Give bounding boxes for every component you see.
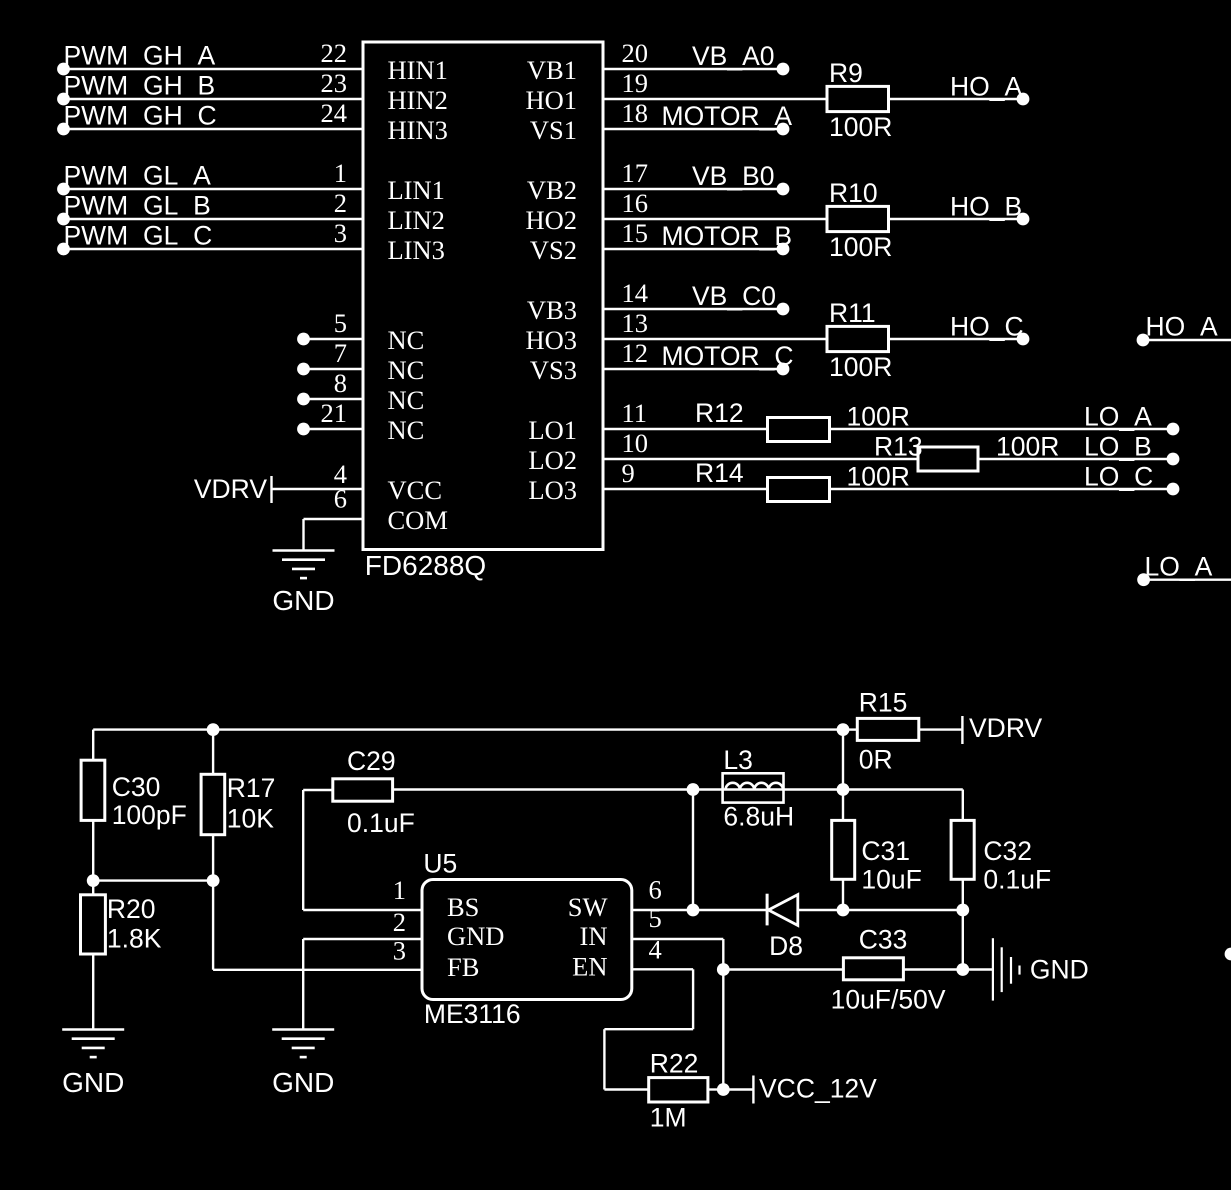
wire down to BS pin — [302, 790, 304, 910]
junction dot L3 right / C31 / R15 branch — [837, 783, 850, 796]
svg-text:COM: COM — [388, 505, 448, 535]
svg-text:GND: GND — [447, 921, 504, 951]
svg-text:2: 2 — [334, 188, 347, 218]
svg-text:IN: IN — [580, 921, 608, 951]
svg-text:11: 11 — [622, 398, 648, 428]
resistor R22 body — [649, 1078, 708, 1102]
wire node A down to FB pin — [212, 881, 214, 970]
svg-text:R9: R9 — [829, 58, 863, 88]
node A wire C30/R17 junction — [93, 879, 213, 881]
node PWM_GH_C dot — [57, 123, 70, 136]
wire L3 through to C31 node — [693, 788, 843, 790]
wire R15 branch down — [842, 730, 844, 790]
NC pin 21 dot — [297, 423, 310, 436]
wire pin to net MOTOR_A — [603, 128, 783, 130]
wire net PWM_GH_C to pin 24 — [64, 128, 364, 130]
wire R22 to VCC_12V node — [708, 1088, 723, 1090]
node HO_C dot — [1017, 333, 1030, 346]
svg-text:R13: R13 — [874, 432, 923, 462]
NC pin 21 stub wire — [304, 428, 364, 430]
svg-text:R11: R11 — [829, 298, 876, 328]
wire LO2 pin to resistor R13 — [603, 458, 918, 460]
wire rail to R15 — [843, 728, 857, 730]
svg-text:C31: C31 — [861, 836, 910, 866]
svg-text:ME3116: ME3116 — [424, 999, 521, 1029]
junction dot VCC_12V — [717, 1083, 730, 1096]
wire resistor R10 to net HO_B — [889, 218, 1024, 220]
node HO_A stub dot (right edge) — [1137, 334, 1150, 347]
svg-text:NC: NC — [388, 355, 425, 385]
svg-text:C33: C33 — [859, 925, 908, 955]
wire corner to C32 top — [962, 790, 964, 821]
svg-text:100pF: 100pF — [112, 800, 187, 830]
IC U5 body — [422, 880, 632, 1000]
VDRV terminal bar (pin 4) — [270, 476, 272, 503]
diode D8 triangle — [768, 895, 797, 926]
svg-text:12: 12 — [622, 338, 649, 368]
svg-text:FB: FB — [447, 952, 479, 982]
capacitor C32 body — [951, 820, 974, 879]
wire node A to R20 — [92, 881, 94, 895]
svg-text:9: 9 — [622, 458, 635, 488]
wire HO pin to resistor R9 — [603, 98, 827, 100]
svg-text:LO_A: LO_A — [1084, 402, 1152, 432]
svg-text:VB1: VB1 — [527, 55, 577, 85]
wire VDRV to VCC pin 4 — [272, 488, 364, 490]
wire pin to net VB_A0 — [603, 68, 783, 70]
wire C32 bottom to net — [962, 879, 964, 910]
wire SW junction up to L3 — [692, 790, 694, 911]
svg-text:19: 19 — [622, 68, 649, 98]
capacitor C30 body — [81, 760, 105, 820]
svg-text:U5: U5 — [423, 849, 457, 879]
svg-text:VDRV: VDRV — [969, 713, 1042, 743]
svg-text:HIN2: HIN2 — [388, 85, 448, 115]
wire resistor R13 to net LO_B — [978, 458, 1173, 460]
svg-text:LIN3: LIN3 — [388, 235, 445, 265]
wire EN left — [604, 1028, 693, 1030]
svg-text:100R: 100R — [847, 402, 910, 432]
svg-text:VS2: VS2 — [530, 235, 577, 265]
junction dot L3 left — [687, 783, 700, 796]
svg-text:16: 16 — [622, 188, 649, 218]
svg-text:HO_A: HO_A — [1146, 312, 1218, 342]
svg-text:L3: L3 — [723, 745, 752, 775]
svg-text:R12: R12 — [695, 398, 744, 428]
node PWM_GH_B dot — [57, 93, 70, 106]
svg-text:GND: GND — [62, 1067, 124, 1098]
node LO_B dot — [1167, 453, 1180, 466]
svg-text:PWM_GL_B: PWM_GL_B — [64, 191, 211, 221]
svg-text:15: 15 — [622, 218, 649, 248]
wire net PWM_GH_A to pin 22 — [64, 68, 364, 70]
wire R15 to VDRV terminal — [919, 728, 963, 730]
diode D8 cathode bar — [766, 894, 769, 926]
svg-text:100R: 100R — [829, 232, 892, 262]
svg-text:7: 7 — [334, 338, 347, 368]
svg-text:HIN1: HIN1 — [388, 55, 448, 85]
IC U1 FD6288Q body — [363, 42, 603, 550]
svg-text:14: 14 — [622, 278, 649, 308]
svg-text:10uF: 10uF — [861, 865, 921, 895]
wire pin to net MOTOR_C — [603, 368, 783, 370]
capacitor C31 body — [832, 820, 855, 879]
wire net PWM_GL_C to pin 3 — [64, 248, 364, 250]
svg-text:17: 17 — [622, 158, 649, 188]
VDRV terminal bar — [961, 716, 963, 744]
NC pin 8 dot — [297, 393, 310, 406]
junction dot IN / C33 branch — [717, 963, 730, 976]
svg-text:HO_C: HO_C — [950, 312, 1024, 342]
wire HO_A stub to right edge — [1143, 339, 1231, 341]
node LO_A dot — [1167, 423, 1180, 436]
wire LO3 pin to resistor R14 — [603, 488, 768, 490]
wire net PWM_GL_A to pin 1 — [64, 188, 364, 190]
svg-text:VCC: VCC — [388, 475, 443, 505]
capacitor C33 body — [843, 958, 903, 980]
ground symbol (R20) — [62, 1028, 124, 1031]
svg-text:1.8K: 1.8K — [107, 924, 162, 954]
wire C31 node to C32 — [843, 788, 963, 790]
svg-text:5: 5 — [334, 308, 347, 338]
svg-text:3: 3 — [334, 218, 347, 248]
node A dot right — [207, 874, 220, 887]
NC pin 7 stub wire — [304, 368, 364, 370]
wire LO_A stub to right edge — [1144, 579, 1231, 581]
svg-text:LIN2: LIN2 — [388, 205, 445, 235]
svg-text:MOTOR_A: MOTOR_A — [662, 101, 793, 131]
wire C29 left to BS corner — [303, 789, 333, 791]
resistor R10 body — [827, 206, 889, 231]
svg-text:100R: 100R — [829, 352, 892, 382]
wire EN down to R22 — [603, 1029, 605, 1089]
svg-text:100R: 100R — [829, 112, 892, 142]
resistor R14 body — [768, 478, 830, 502]
svg-text:C29: C29 — [347, 746, 396, 776]
svg-text:LO_B: LO_B — [1084, 432, 1152, 462]
svg-text:HIN3: HIN3 — [388, 115, 448, 145]
svg-text:3: 3 — [393, 935, 406, 965]
svg-text:R10: R10 — [829, 178, 878, 208]
wire net PWM_GL_B to pin 2 — [64, 218, 364, 220]
svg-text:EN: EN — [572, 951, 607, 981]
wire C33 to GND junction — [903, 968, 962, 970]
svg-text:PWM_GH_C: PWM_GH_C — [64, 101, 217, 131]
svg-text:R20: R20 — [107, 894, 156, 924]
wire resistor R11 to net HO_C — [889, 338, 1024, 340]
svg-text:21: 21 — [321, 398, 348, 428]
svg-text:PWM_GH_B: PWM_GH_B — [64, 71, 216, 101]
svg-text:NC: NC — [388, 385, 425, 415]
svg-text:VS3: VS3 — [530, 355, 577, 385]
node MOTOR_B dot — [777, 243, 790, 256]
wire R17 to node A — [212, 835, 214, 881]
wire diode anode to C31 junction — [798, 909, 843, 911]
svg-text:HO1: HO1 — [525, 85, 577, 115]
node PWM_GH_A dot — [57, 63, 70, 76]
svg-text:1: 1 — [393, 875, 406, 905]
svg-text:22: 22 — [321, 38, 348, 68]
wire C29 right to SW net — [393, 788, 693, 790]
svg-text:LO1: LO1 — [528, 415, 577, 445]
svg-text:HO2: HO2 — [525, 205, 577, 235]
svg-text:MOTOR_C: MOTOR_C — [662, 341, 794, 371]
wire LO1 pin to resistor R12 — [603, 428, 768, 430]
wire pin to net VB_B0 — [603, 188, 783, 190]
svg-text:2: 2 — [393, 907, 406, 937]
wire R20 to ground — [92, 954, 94, 1030]
svg-text:6: 6 — [334, 483, 347, 513]
node LO_C dot — [1167, 483, 1180, 496]
NC pin 8 stub wire — [304, 398, 364, 400]
svg-text:LO_A: LO_A — [1145, 552, 1213, 582]
junction dot diode / C31 — [837, 904, 850, 917]
resistor R17 body — [201, 774, 225, 834]
inductor L3 body — [723, 773, 784, 802]
svg-text:PWM_GH_A: PWM_GH_A — [64, 41, 216, 71]
svg-text:HO_A: HO_A — [950, 72, 1022, 102]
wire VDRV rail top — [93, 728, 843, 730]
node VB_C0 dot — [777, 303, 790, 316]
wire C32 junction down to C33 net — [962, 910, 964, 970]
NC pin 5 stub wire — [304, 338, 364, 340]
svg-text:0R: 0R — [859, 745, 893, 775]
capacitor C29 body — [333, 779, 393, 801]
svg-text:100R: 100R — [847, 462, 910, 492]
NC pin 5 dot — [297, 333, 310, 346]
svg-text:R22: R22 — [650, 1048, 699, 1078]
node VB_A0 dot — [777, 63, 790, 76]
svg-text:SW: SW — [568, 892, 608, 922]
wire COM down to ground symbol — [302, 519, 304, 550]
node PWM_GL_B dot — [57, 213, 70, 226]
wire resistor R9 to net HO_A — [889, 98, 1024, 100]
svg-text:1: 1 — [334, 158, 347, 188]
svg-text:R15: R15 — [859, 688, 908, 718]
resistor R9 body — [827, 86, 889, 111]
svg-text:24: 24 — [321, 98, 348, 128]
partial junction dot at right edge — [1225, 948, 1231, 961]
wire pin to net VB_C0 — [603, 308, 783, 310]
svg-text:D8: D8 — [769, 931, 803, 961]
svg-text:VB_C0: VB_C0 — [692, 281, 776, 311]
ground symbol (COM) — [273, 549, 335, 552]
wire C31 bottom to SW-diode net — [842, 879, 844, 910]
svg-text:HO_B: HO_B — [950, 192, 1022, 222]
svg-text:LO2: LO2 — [528, 445, 577, 475]
svg-text:GND: GND — [272, 1067, 334, 1098]
svg-text:20: 20 — [622, 38, 649, 68]
VCC_12V terminal bar — [752, 1076, 754, 1104]
node A dot left — [87, 874, 100, 887]
wire EN pin 4 — [632, 968, 693, 970]
svg-text:0.1uF: 0.1uF — [347, 808, 415, 838]
svg-text:VB_A0: VB_A0 — [692, 41, 775, 71]
wire HO pin to resistor R10 — [603, 218, 827, 220]
wire SW pin 6 to diode — [632, 909, 767, 911]
svg-text:R17: R17 — [227, 773, 276, 803]
svg-text:VCC_12V: VCC_12V — [759, 1074, 877, 1104]
wire GND pin down to ground — [302, 939, 304, 1030]
wire FB pin 3 — [213, 969, 422, 971]
svg-text:100R: 100R — [996, 432, 1059, 462]
wire COM pin 6 to ground — [304, 518, 364, 520]
wire junction to C33 — [723, 968, 843, 970]
node LO_A stub dot (right edge) — [1137, 573, 1150, 586]
resistor R12 body — [768, 418, 830, 442]
node MOTOR_C dot — [777, 363, 790, 376]
resistor R11 body — [827, 326, 889, 351]
wire HO pin to resistor R11 — [603, 338, 827, 340]
right ground symbol (vertical bars) — [992, 938, 994, 1000]
wire C30 to node A — [92, 820, 94, 880]
wire to VCC_12V terminal — [723, 1088, 753, 1090]
svg-text:10uF/50V: 10uF/50V — [831, 985, 946, 1015]
svg-text:10: 10 — [622, 428, 649, 458]
wire junction to right ground symbol — [963, 968, 993, 970]
svg-text:13: 13 — [622, 308, 649, 338]
wire node to C31 top — [842, 790, 844, 821]
wire net PWM_GH_B to pin 23 — [64, 98, 364, 100]
wire IN pin 5 — [632, 938, 724, 940]
resistor R13 body — [918, 447, 978, 471]
svg-text:1M: 1M — [650, 1103, 687, 1133]
junction dot C32 / gnd branch — [956, 904, 969, 917]
NC pin 7 dot — [297, 363, 310, 376]
junction dot SW / L3 branch — [687, 904, 700, 917]
svg-text:8: 8 — [334, 368, 347, 398]
node HO_A dot — [1017, 93, 1030, 106]
svg-text:LIN1: LIN1 — [388, 175, 445, 205]
ground symbol (U5 GND) — [272, 1028, 334, 1031]
svg-text:C32: C32 — [983, 836, 1032, 866]
junction dot C33 right / GND — [956, 963, 969, 976]
svg-text:FD6288Q: FD6288Q — [365, 550, 486, 581]
node MOTOR_A dot — [777, 123, 790, 136]
svg-text:R14: R14 — [695, 458, 744, 488]
svg-text:0.1uF: 0.1uF — [983, 865, 1051, 895]
svg-text:NC: NC — [388, 325, 425, 355]
wire GND pin 2 — [303, 938, 422, 940]
svg-text:NC: NC — [388, 415, 425, 445]
node VB_B0 dot — [777, 183, 790, 196]
wire C31 junction to C32 junction — [843, 909, 963, 911]
node PWM_GL_A dot — [57, 183, 70, 196]
node PWM_GL_C dot — [57, 243, 70, 256]
wire to R22 left — [604, 1088, 648, 1090]
resistor R15 body — [857, 718, 919, 740]
svg-text:10K: 10K — [227, 804, 274, 834]
svg-text:VB3: VB3 — [527, 295, 577, 325]
wire resistor R12 to net LO_A — [830, 428, 1174, 430]
svg-text:LO3: LO3 — [528, 475, 577, 505]
svg-text:5: 5 — [649, 903, 662, 933]
svg-text:VB2: VB2 — [527, 175, 577, 205]
svg-text:18: 18 — [622, 98, 649, 128]
wire pin to net MOTOR_B — [603, 248, 783, 250]
node HO_B dot — [1017, 213, 1030, 226]
svg-text:VDRV: VDRV — [194, 474, 267, 504]
svg-text:C30: C30 — [112, 772, 161, 802]
svg-text:23: 23 — [321, 68, 348, 98]
svg-text:GND: GND — [1030, 955, 1089, 985]
svg-text:LO_C: LO_C — [1084, 462, 1153, 492]
svg-text:GND: GND — [272, 585, 334, 616]
svg-text:VS1: VS1 — [530, 115, 577, 145]
svg-text:PWM_GL_A: PWM_GL_A — [64, 161, 212, 191]
wire rail down to C30 — [92, 730, 94, 761]
svg-text:6: 6 — [649, 875, 662, 905]
junction dot rail / R15 C31 — [837, 723, 850, 736]
svg-text:VB_B0: VB_B0 — [692, 161, 775, 191]
wire IN down to VCC_12V — [722, 939, 724, 1090]
wire EN down — [692, 969, 694, 1029]
wire rail down to R17 — [212, 730, 214, 775]
resistor R20 body — [81, 895, 106, 954]
svg-text:BS: BS — [447, 892, 479, 922]
svg-text:HO3: HO3 — [525, 325, 577, 355]
svg-text:MOTOR_B: MOTOR_B — [662, 221, 793, 251]
wire BS pin 1 — [303, 909, 422, 911]
wire resistor R14 to net LO_C — [830, 488, 1174, 490]
svg-text:PWM_GL_C: PWM_GL_C — [64, 221, 213, 251]
svg-text:6.8uH: 6.8uH — [723, 802, 794, 832]
junction dot rail / R17 — [207, 723, 220, 736]
